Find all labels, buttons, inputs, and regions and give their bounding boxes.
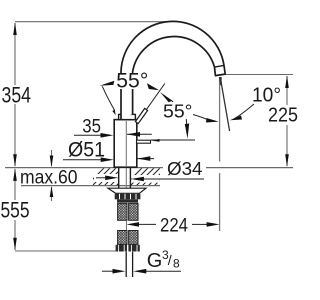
node Ø34 arrows white halos xyxy=(94,174,118,182)
hatching countertop right xyxy=(124,168,178,186)
hose upper left braided xyxy=(118,203,127,220)
centerline in hose gap xyxy=(126,221,128,231)
svg-text:Ø51: Ø51 xyxy=(68,139,105,162)
svg-text:55°: 55° xyxy=(163,102,193,122)
node 224 dimension xyxy=(127,222,140,227)
lever open position outline xyxy=(135,108,147,123)
svg-text:55°: 55° xyxy=(116,70,148,93)
centerline in body xyxy=(125,121,127,166)
svg-text:Ø34: Ø34 xyxy=(167,158,203,179)
leader down arrow of 55 no.2 xyxy=(185,119,188,126)
wire countertop top surface line xyxy=(5,167,163,169)
svg-text:/: / xyxy=(168,252,172,268)
mounting nut xyxy=(115,194,141,200)
svg-text:8: 8 xyxy=(173,256,180,270)
svg-text:max.60: max.60 xyxy=(20,168,78,189)
wire bottom hose-end reference line xyxy=(15,250,126,252)
leader right arrow of 55 no.2 xyxy=(193,115,208,120)
wire countertop bottom line xyxy=(21,185,160,187)
node 55 deg label no.1 white halo xyxy=(114,74,151,90)
node 354 dimension line xyxy=(14,23,16,85)
wire top extension line xyxy=(15,21,168,23)
hose lower right braided xyxy=(129,231,138,245)
aerator seam xyxy=(215,65,225,67)
hose lower left braided xyxy=(118,231,127,245)
closed lever reference line xyxy=(151,139,195,141)
faucet collar xyxy=(119,114,136,119)
lever extension line xyxy=(146,84,165,110)
spout tube with arc and riser xyxy=(121,21,225,119)
hose end fitting right xyxy=(128,245,139,252)
arc arrow pair on lever line xyxy=(147,83,159,90)
wire aerator extension line to 225 xyxy=(225,74,293,76)
small arrowhead at collar xyxy=(112,110,115,115)
hose end fitting left xyxy=(116,245,127,252)
left lever arc line xyxy=(102,86,114,110)
svg-text:354: 354 xyxy=(2,83,32,108)
lever closed position bar xyxy=(137,140,151,143)
faucet body xyxy=(114,120,137,168)
shank through countertop xyxy=(118,168,120,188)
bottom G3/8 tube xyxy=(125,252,127,277)
svg-text:225: 225 xyxy=(268,105,298,127)
svg-text:224: 224 xyxy=(160,216,188,237)
svg-text:555: 555 xyxy=(1,198,30,223)
G3/8 arrows xyxy=(102,270,113,272)
node 555 dimension line xyxy=(14,169,16,200)
svg-text:35: 35 xyxy=(82,116,101,137)
wire 10 deg jet line xyxy=(220,77,229,131)
escutcheon cone below counter xyxy=(108,188,146,193)
wire water stream vertical reference line xyxy=(219,77,221,162)
hose upper right braided xyxy=(129,203,138,220)
arc arrow left of 55 no.1 xyxy=(100,81,115,86)
svg-text:G: G xyxy=(147,250,163,272)
hatching countertop left xyxy=(86,168,134,186)
node 225 dimension line xyxy=(286,76,288,105)
svg-text:10°: 10° xyxy=(252,85,281,107)
node max.60 dimension xyxy=(51,150,53,166)
